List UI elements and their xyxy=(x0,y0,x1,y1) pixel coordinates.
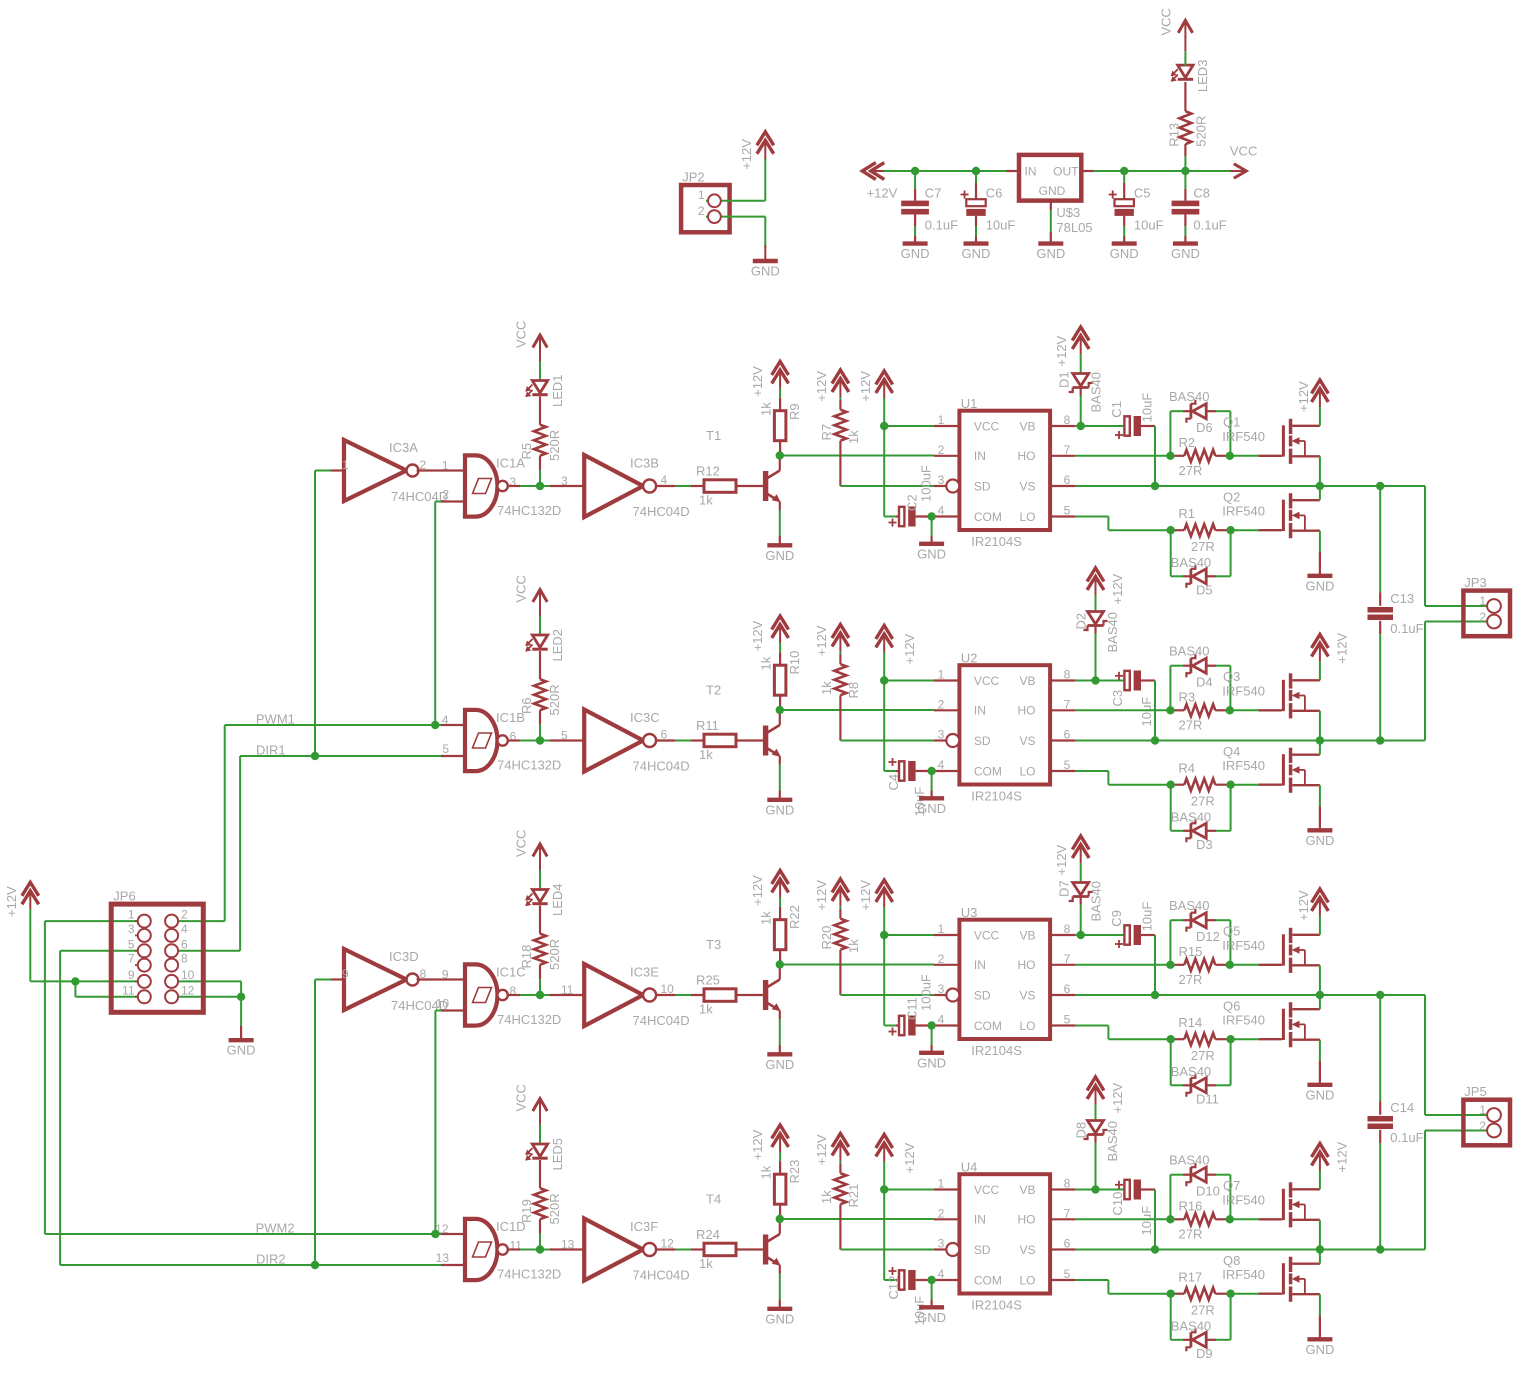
svg-text:R1: R1 xyxy=(1178,506,1195,521)
junction PWM1 xyxy=(431,721,439,729)
svg-text:COM: COM xyxy=(974,510,1002,524)
svg-text:74HC04D: 74HC04D xyxy=(633,1268,690,1283)
wire COM to driver xyxy=(932,770,934,772)
transistor T4 xyxy=(763,1235,768,1265)
svg-text:LO: LO xyxy=(1019,1019,1035,1033)
pad JP6-2 xyxy=(172,920,178,922)
wire Q3 source to output node xyxy=(1319,711,1321,741)
svg-text:BAS40: BAS40 xyxy=(1169,898,1209,913)
resistor R16 27R xyxy=(1170,1218,1184,1220)
svg-text:2: 2 xyxy=(1479,610,1486,624)
svg-text:R7: R7 xyxy=(819,424,834,441)
power flag VCC arrow above LED5 xyxy=(533,1099,547,1112)
svg-text:1k: 1k xyxy=(846,939,861,953)
gate driver U4 IR2104S xyxy=(959,1174,1050,1293)
wire regulator OUT to VCC xyxy=(1081,170,1093,172)
svg-text:BAS40: BAS40 xyxy=(1171,1318,1211,1333)
wire gate of Q4 xyxy=(1231,784,1259,786)
svg-text:IC3C: IC3C xyxy=(630,710,660,725)
NAND gate IC1D 74HC132D xyxy=(465,1219,476,1280)
wire Q8 source to GND xyxy=(1319,1294,1321,1315)
svg-text:3: 3 xyxy=(938,1237,945,1251)
svg-text:1k: 1k xyxy=(759,402,774,416)
svg-text:10uF: 10uF xyxy=(1140,902,1155,932)
junction LO right xyxy=(1226,1035,1234,1043)
wire SD net xyxy=(840,740,934,742)
diode D5 BAS40 bypass loop xyxy=(1170,530,1172,576)
svg-text:IRF540: IRF540 xyxy=(1222,504,1265,519)
pad JP6-12 xyxy=(172,996,178,998)
wire driver VB pin8 xyxy=(1075,1189,1124,1191)
capacitor C12 10uF xyxy=(884,1279,896,1281)
svg-text:R21: R21 xyxy=(846,1184,861,1208)
svg-text:IR2104S: IR2104S xyxy=(971,1298,1022,1313)
junction output filter column xyxy=(1376,482,1384,490)
svg-text:VCC: VCC xyxy=(974,419,1000,433)
LED LED5 xyxy=(532,1144,547,1157)
wire to transistor base xyxy=(736,1248,763,1250)
junction COM node xyxy=(927,1021,935,1029)
pad JP6-5 xyxy=(135,950,141,952)
wire driver VCC pin1 xyxy=(884,1189,934,1191)
wire T3 emitter to GND xyxy=(779,1011,781,1020)
wire NAND output to node xyxy=(508,994,520,996)
wire C10 to VS xyxy=(1154,1190,1156,1250)
svg-text:IRF540: IRF540 xyxy=(1222,938,1265,953)
wire driver VCC pin1 xyxy=(884,934,934,936)
wire T1 emitter to GND xyxy=(779,502,781,511)
wire NAND output to node xyxy=(508,1248,520,1250)
diode D12 BAS40 bypass loop xyxy=(1169,920,1171,965)
wire IC3F output to R24 xyxy=(656,1248,675,1250)
svg-text:R9: R9 xyxy=(787,403,802,420)
wire gate of Q1 xyxy=(1230,455,1259,457)
svg-text:LO: LO xyxy=(1019,764,1035,778)
svg-text:PWM2: PWM2 xyxy=(256,1221,295,1236)
svg-text:VS: VS xyxy=(1019,1243,1035,1257)
capacitor C2 100uF xyxy=(884,516,896,518)
wire NAND output to node xyxy=(508,485,520,487)
connector JP2 xyxy=(681,185,730,232)
svg-text:5: 5 xyxy=(1064,1013,1071,1027)
diode D3 BAS40 bypass loop xyxy=(1170,785,1172,831)
pad JP3-2 xyxy=(1487,615,1501,629)
svg-text:2: 2 xyxy=(938,443,945,457)
wire PWM1 to IC1A pin2 xyxy=(434,502,436,726)
svg-text:27R: 27R xyxy=(1191,793,1215,808)
junction NAND output node xyxy=(536,1245,544,1253)
svg-text:+12V: +12V xyxy=(1110,1082,1125,1113)
resistor R19 520R xyxy=(539,1160,541,1188)
junction output filter column xyxy=(1376,736,1384,744)
svg-text:10uF: 10uF xyxy=(1139,1206,1154,1236)
svg-text:1k: 1k xyxy=(699,493,713,508)
svg-text:520R: 520R xyxy=(547,939,562,970)
junction DIR1 xyxy=(311,752,319,760)
svg-text:JP6: JP6 xyxy=(113,889,135,904)
wire driver VS pin6 to bridge output xyxy=(1075,740,1425,742)
wire PWM input to NAND pin xyxy=(441,724,465,726)
wire Q2 drain to output node xyxy=(1319,486,1321,500)
NAND gate IC1B 74HC132D xyxy=(465,710,476,771)
svg-text:HO: HO xyxy=(1018,449,1036,463)
svg-text:BAS40: BAS40 xyxy=(1088,881,1103,921)
svg-text:2: 2 xyxy=(938,952,945,966)
svg-text:74HC132D: 74HC132D xyxy=(497,1012,561,1027)
svg-text:GND: GND xyxy=(751,264,780,279)
junction VB boot node xyxy=(1091,1185,1099,1193)
svg-text:3: 3 xyxy=(938,473,945,487)
svg-text:GND: GND xyxy=(1305,833,1334,848)
LED LED1 xyxy=(532,381,547,394)
inverter IC3C 74HC04D xyxy=(584,710,643,772)
svg-text:+12V: +12V xyxy=(814,371,829,402)
svg-text:9: 9 xyxy=(128,968,135,982)
resistor R12 1k xyxy=(704,480,736,493)
pad JP5-1 xyxy=(1487,1108,1501,1122)
wire NAND output to node xyxy=(508,739,520,741)
svg-text:GND: GND xyxy=(1039,184,1066,198)
junction +12V JP6 xyxy=(71,977,79,985)
svg-text:74HC132D: 74HC132D xyxy=(497,503,561,518)
svg-text:10: 10 xyxy=(181,968,195,982)
wire +12V to JP6 pin9 xyxy=(29,909,31,981)
wire node to inverter B xyxy=(544,485,550,487)
gate driver U1 IR2104S xyxy=(959,411,1050,530)
MOSFET Q1 IRF540 high side xyxy=(1259,455,1282,457)
ground below C5 xyxy=(1112,241,1137,245)
pad JP6-3 xyxy=(135,934,141,936)
svg-text:5: 5 xyxy=(561,729,568,743)
wire driver HO pin7 xyxy=(1075,709,1170,711)
svg-text:5: 5 xyxy=(442,742,449,756)
junction NAND output node xyxy=(536,991,544,999)
svg-text:COM: COM xyxy=(974,1273,1002,1287)
svg-text:0.1uF: 0.1uF xyxy=(1193,218,1226,233)
svg-text:R18: R18 xyxy=(519,945,534,969)
svg-text:D12: D12 xyxy=(1196,929,1220,944)
svg-text:2: 2 xyxy=(181,908,188,922)
capacitor C9 10uF xyxy=(1124,925,1129,944)
svg-text:13: 13 xyxy=(436,1251,450,1265)
svg-text:D7: D7 xyxy=(1057,880,1072,897)
capacitor C8 0.1uF xyxy=(1184,171,1186,189)
wire PWM1 from JP6 pin2 xyxy=(172,920,225,922)
svg-text:SD: SD xyxy=(974,1243,991,1257)
svg-text:1k: 1k xyxy=(759,1165,774,1179)
svg-text:BAS40: BAS40 xyxy=(1105,1121,1120,1161)
supply +12V arrow at Q7 drain xyxy=(1312,1144,1329,1158)
pad JP6-6 xyxy=(172,950,178,952)
wire to transistor base xyxy=(736,739,763,741)
svg-text:VCC: VCC xyxy=(1230,144,1257,159)
wire +12V rail to regulator IN xyxy=(884,170,1007,172)
svg-text:0.1uF: 0.1uF xyxy=(925,218,958,233)
svg-text:VCC: VCC xyxy=(514,1084,529,1111)
resistor R17 27R xyxy=(1171,1293,1185,1295)
svg-text:4: 4 xyxy=(938,1267,945,1281)
junction collector node xyxy=(776,451,784,459)
wire NAND lower input xyxy=(441,755,465,757)
svg-text:GND: GND xyxy=(962,246,991,261)
svg-text:BAS40: BAS40 xyxy=(1169,1153,1209,1168)
wire gate of Q3 xyxy=(1230,709,1259,711)
svg-text:1k: 1k xyxy=(699,1256,713,1271)
svg-text:74HC04D: 74HC04D xyxy=(633,1013,690,1028)
svg-text:VCC: VCC xyxy=(974,928,1000,942)
wire collector node to driver IN xyxy=(780,709,934,711)
wire driver VS pin6 to bridge output xyxy=(1075,1249,1425,1251)
junction bridge output xyxy=(1316,991,1324,999)
pad JP6-8 xyxy=(172,964,178,966)
supply +12V arrow above R22 xyxy=(772,871,789,885)
svg-text:IN: IN xyxy=(974,1213,986,1227)
svg-text:R15: R15 xyxy=(1179,944,1203,959)
resistor R14 27R xyxy=(1171,1038,1185,1040)
svg-text:IR2104S: IR2104S xyxy=(971,789,1022,804)
junction HO left xyxy=(1166,1215,1174,1223)
svg-text:T1: T1 xyxy=(706,428,721,443)
MOSFET Q2 IRF540 low side xyxy=(1259,529,1282,531)
svg-text:11: 11 xyxy=(122,983,135,997)
svg-text:+12V: +12V xyxy=(858,371,873,402)
capacitor C5 10uF polarized xyxy=(1123,171,1125,183)
svg-text:+12V: +12V xyxy=(750,1129,765,1160)
wire driver VS pin6 to bridge output xyxy=(1075,485,1425,487)
svg-text:GND: GND xyxy=(1110,246,1139,261)
svg-text:1k: 1k xyxy=(759,656,774,670)
supply +12V arrow above R21 xyxy=(832,1134,849,1148)
ground below JP6 xyxy=(240,997,242,1026)
svg-text:4: 4 xyxy=(181,922,188,936)
svg-text:IR2104S: IR2104S xyxy=(971,1043,1022,1058)
svg-text:GND: GND xyxy=(1036,246,1065,261)
svg-text:520R: 520R xyxy=(547,430,562,461)
ground below C7 xyxy=(903,241,928,245)
resistor R15 27R xyxy=(1170,964,1184,966)
supply +12V arrow above D8 xyxy=(1087,1077,1104,1091)
wire Q1 source to output node xyxy=(1319,456,1321,486)
wire COM to driver xyxy=(932,1279,934,1281)
ground below Q4 xyxy=(1307,828,1332,832)
wire IC3C output to R11 xyxy=(656,739,675,741)
svg-text:Q4: Q4 xyxy=(1223,744,1240,759)
svg-text:LED3: LED3 xyxy=(1195,60,1210,93)
wire JP6 pin10 to GND xyxy=(172,980,242,982)
junction HO right xyxy=(1226,706,1234,714)
svg-text:R25: R25 xyxy=(696,973,720,988)
resistor R18 520R xyxy=(539,906,541,934)
svg-text:IRF540: IRF540 xyxy=(1222,1013,1265,1028)
svg-text:10uF: 10uF xyxy=(986,218,1016,233)
svg-text:D10: D10 xyxy=(1196,1184,1220,1199)
svg-text:1k: 1k xyxy=(819,1190,834,1204)
wire bridge B to JP3 pin2 xyxy=(1425,621,1494,623)
svg-text:74HC04D: 74HC04D xyxy=(633,759,690,774)
svg-text:R12: R12 xyxy=(696,464,720,479)
diode D4 BAS40 bypass loop xyxy=(1169,666,1171,711)
ground below Q2 xyxy=(1307,574,1332,578)
svg-text:BAS40: BAS40 xyxy=(1169,389,1209,404)
junction collector node xyxy=(776,706,784,714)
junction rail C8 R13 xyxy=(1181,167,1189,175)
junction HO right xyxy=(1226,452,1234,460)
MOSFET Q5 IRF540 high side xyxy=(1259,964,1282,966)
svg-text:8: 8 xyxy=(1064,1177,1071,1191)
svg-text:+12V: +12V xyxy=(902,1142,917,1173)
junction LO left xyxy=(1167,781,1175,789)
svg-text:D2: D2 xyxy=(1074,613,1089,630)
LED LED3 xyxy=(1184,82,1186,111)
svg-text:520R: 520R xyxy=(1194,116,1209,147)
voltage regulator U$3 78L05 xyxy=(1019,155,1081,201)
inverter IC3D 74HC04D xyxy=(344,949,407,1010)
junction boot cap at VS xyxy=(1151,1245,1159,1253)
junction rail C5 xyxy=(1120,167,1128,175)
junction bridge output xyxy=(1316,736,1324,744)
junction HO left xyxy=(1166,706,1174,714)
wire driver HO pin7 xyxy=(1075,964,1170,966)
svg-text:VS: VS xyxy=(1019,479,1035,493)
svg-text:8: 8 xyxy=(181,952,188,966)
wire IC3A output to NAND xyxy=(417,469,465,471)
svg-text:5: 5 xyxy=(1064,758,1071,772)
wire SD net xyxy=(840,485,934,487)
svg-text:GND: GND xyxy=(917,546,946,561)
svg-text:100uF: 100uF xyxy=(919,974,934,1011)
supply +12V arrow above D2 xyxy=(1087,568,1104,582)
junction +12V at driver VCC xyxy=(880,422,888,430)
wire gate of Q2 xyxy=(1231,529,1259,531)
ground below C11 xyxy=(931,1026,933,1046)
svg-text:9: 9 xyxy=(442,967,449,981)
wire JP2 pin2 to GND xyxy=(706,216,765,218)
svg-text:JP3: JP3 xyxy=(1464,575,1486,590)
svg-text:D3: D3 xyxy=(1196,837,1213,852)
LED LED2 xyxy=(532,635,547,648)
svg-text:+12V: +12V xyxy=(739,139,754,170)
pad JP6-7 xyxy=(135,964,141,966)
power flag VCC arrow above LED4 xyxy=(533,844,547,857)
supply +12V arrow above R9 xyxy=(772,362,789,376)
capacitor C13 0.1uF across output xyxy=(1379,486,1381,592)
supply +12V arrow at JP6 xyxy=(22,882,39,896)
svg-text:27R: 27R xyxy=(1179,972,1203,987)
svg-text:11: 11 xyxy=(561,983,574,997)
junction +12V at driver VCC xyxy=(880,931,888,939)
svg-text:1: 1 xyxy=(1479,594,1486,608)
svg-text:C8: C8 xyxy=(1193,186,1210,201)
junction LO left xyxy=(1167,1290,1175,1298)
wire gate of Q6 xyxy=(1231,1038,1259,1040)
wire C9 to VS xyxy=(1154,935,1156,995)
resistor R25 1k xyxy=(704,989,736,1002)
connector JP5 xyxy=(1463,1100,1510,1146)
svg-text:D1: D1 xyxy=(1057,371,1072,388)
svg-text:R5: R5 xyxy=(519,443,534,460)
svg-text:D5: D5 xyxy=(1196,583,1213,598)
pad JP6-11 xyxy=(135,996,141,998)
svg-text:T2: T2 xyxy=(706,683,721,698)
junction output filter column xyxy=(1376,1245,1384,1253)
junction LO right xyxy=(1226,526,1234,534)
svg-text:LED4: LED4 xyxy=(550,883,565,916)
junction PWM2 xyxy=(431,1230,439,1238)
wire node to inverter B xyxy=(544,994,550,996)
junction +12V at driver VCC xyxy=(880,676,888,684)
svg-text:78L05: 78L05 xyxy=(1056,220,1092,235)
pad JP6-9 xyxy=(135,980,141,982)
wire IC3D output to NAND xyxy=(417,978,465,980)
svg-text:HO: HO xyxy=(1018,958,1036,972)
inverter IC3E 74HC04D xyxy=(584,964,643,1026)
wire to transistor base xyxy=(736,994,763,996)
svg-text:SD: SD xyxy=(974,734,991,748)
wire DIR2 to IC3D input xyxy=(314,980,316,1266)
svg-text:R8: R8 xyxy=(846,682,861,699)
wire to IC3D input xyxy=(315,979,331,981)
svg-text:IC3D: IC3D xyxy=(389,949,419,964)
svg-text:2: 2 xyxy=(442,488,449,502)
svg-text:7: 7 xyxy=(1064,1206,1071,1220)
svg-text:6: 6 xyxy=(1064,982,1071,996)
resistor R21 1k xyxy=(834,1173,846,1204)
svg-text:1: 1 xyxy=(938,1177,945,1191)
pad JP5-2 xyxy=(1487,1124,1501,1138)
svg-text:R19: R19 xyxy=(519,1199,534,1223)
resistor R22 1k xyxy=(774,920,786,950)
wire node to inverter B xyxy=(544,740,550,742)
connector JP6 header xyxy=(111,904,203,1012)
svg-text:DIR2: DIR2 xyxy=(256,1252,286,1267)
svg-text:3: 3 xyxy=(938,728,945,742)
supply +12V arrow at Q1 drain xyxy=(1312,380,1329,394)
svg-text:Q3: Q3 xyxy=(1223,669,1240,684)
svg-text:JP2: JP2 xyxy=(682,170,704,185)
svg-text:1k: 1k xyxy=(759,911,774,925)
wire Q4 drain to output node xyxy=(1319,741,1321,755)
wire PWM input to NAND pin xyxy=(441,1233,465,1235)
junction rail C6 xyxy=(972,167,980,175)
svg-text:BAS40: BAS40 xyxy=(1169,644,1209,659)
svg-text:U1: U1 xyxy=(961,396,978,411)
junction collector node xyxy=(776,1215,784,1223)
resistor R1 27R xyxy=(1171,529,1185,531)
capacitor C6 10uF polarized xyxy=(975,171,977,183)
wire Q4 source to GND xyxy=(1319,785,1321,806)
wire driver VB pin8 xyxy=(1075,680,1124,682)
wire driver HO pin7 xyxy=(1075,1218,1170,1220)
svg-text:GND: GND xyxy=(765,1057,794,1072)
svg-text:5: 5 xyxy=(1064,1267,1071,1281)
ground below T2 xyxy=(767,798,792,802)
svg-text:Q6: Q6 xyxy=(1223,999,1240,1014)
junction bridge output xyxy=(1316,482,1324,490)
svg-text:1k: 1k xyxy=(846,430,861,444)
MOSFET Q6 IRF540 low side xyxy=(1259,1038,1282,1040)
wire IC3B output to R12 xyxy=(656,485,675,487)
svg-text:+12V: +12V xyxy=(858,880,873,911)
supply +12V arrow above R23 xyxy=(772,1125,789,1139)
svg-text:6: 6 xyxy=(181,937,188,951)
svg-text:R4: R4 xyxy=(1178,760,1195,775)
svg-text:1: 1 xyxy=(938,668,945,682)
svg-text:R6: R6 xyxy=(519,697,534,714)
wire driver VS pin6 to bridge output xyxy=(1075,994,1425,996)
junction LO right xyxy=(1226,781,1234,789)
svg-text:5: 5 xyxy=(1064,504,1071,518)
transistor T3 xyxy=(763,980,768,1010)
